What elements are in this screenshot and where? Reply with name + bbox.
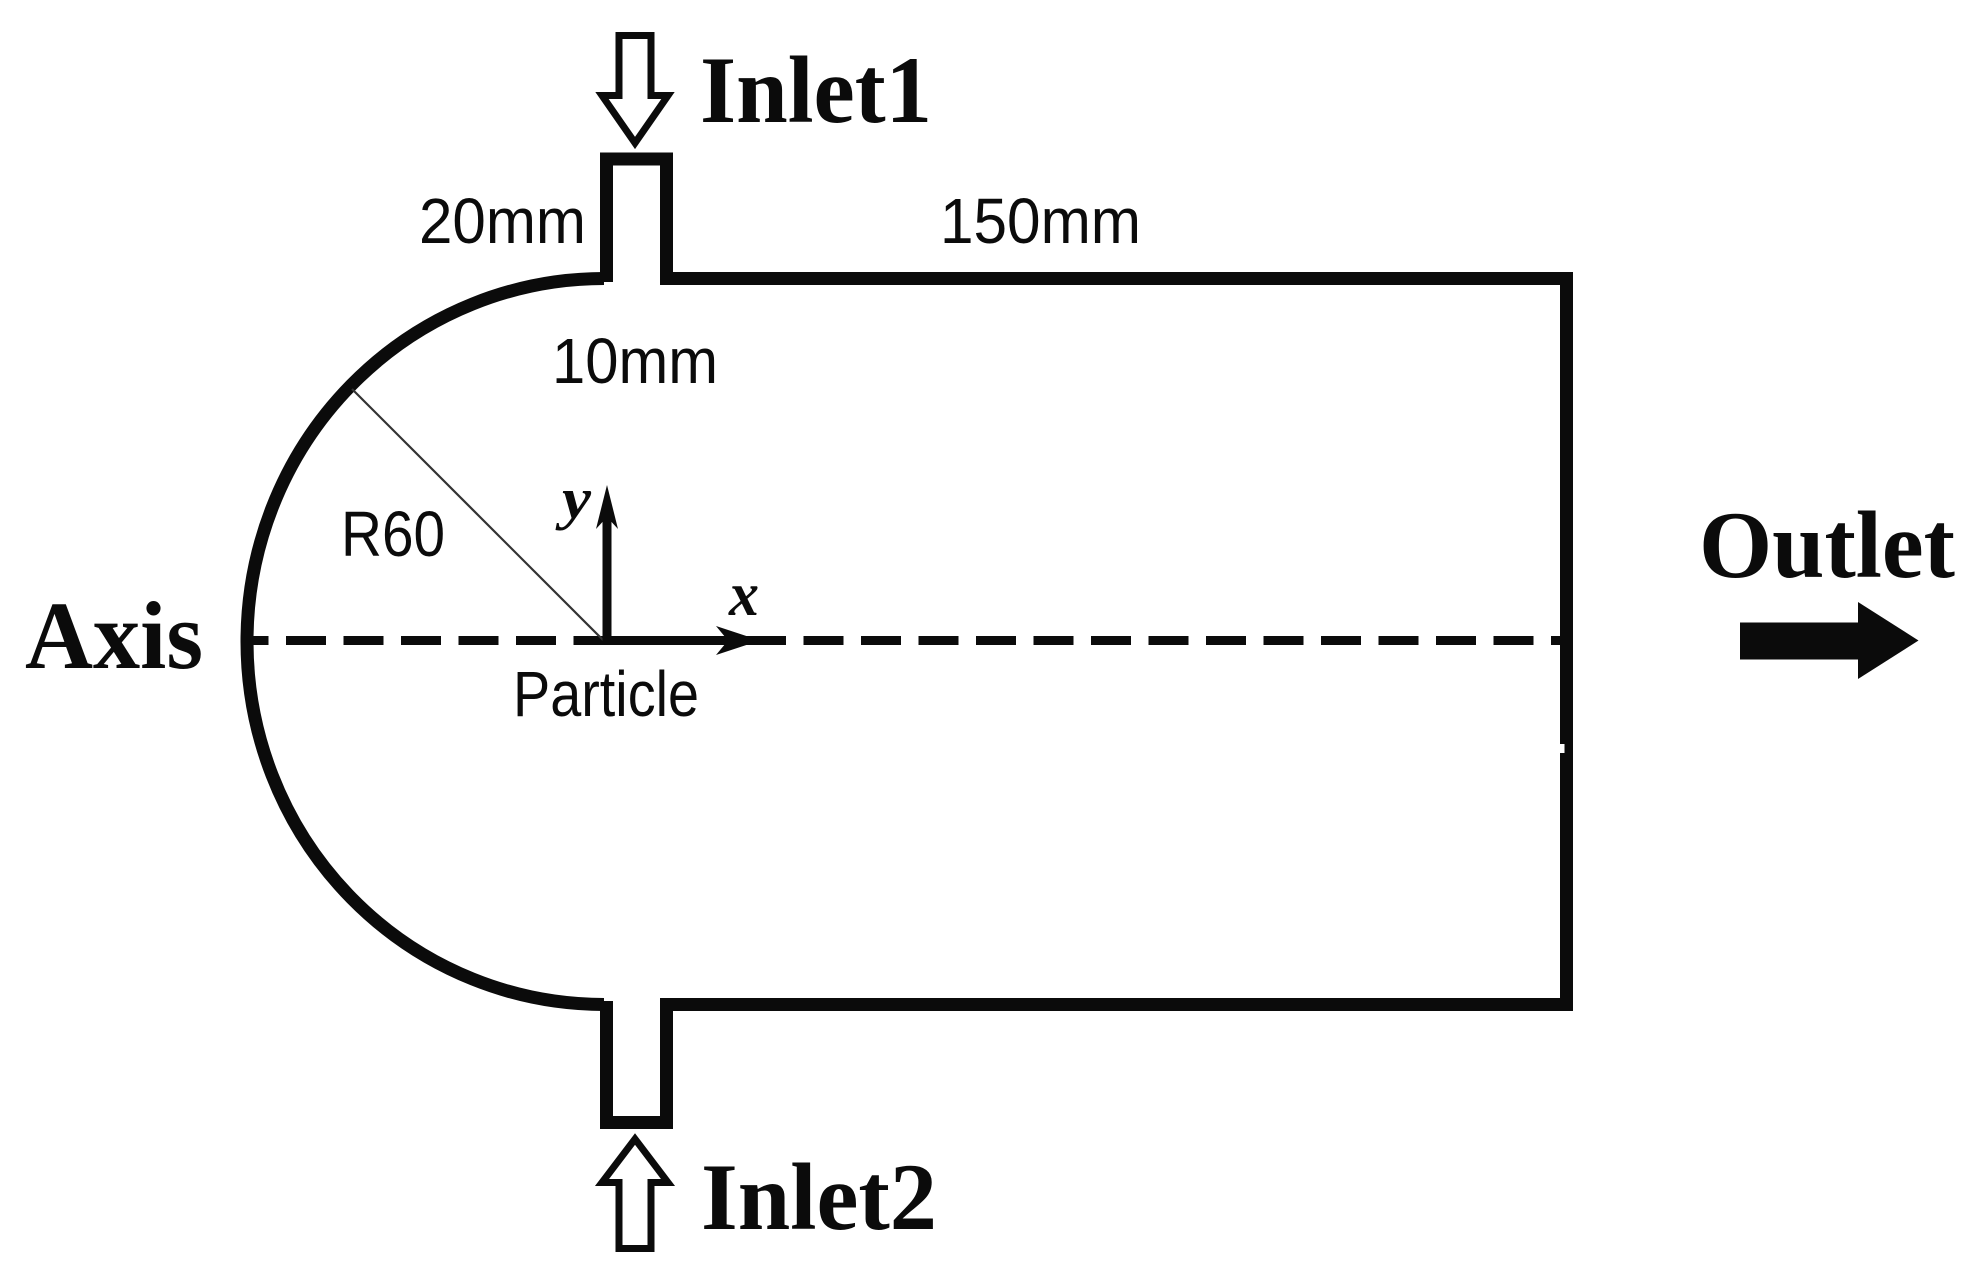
inlet2 stub walls: [607, 1001, 667, 1123]
y axis arrowhead: [596, 485, 618, 529]
svg-text:10mm: 10mm: [552, 325, 718, 397]
svg-text:R60: R60: [341, 498, 445, 570]
inlet2 block arrow (up): [602, 1139, 668, 1249]
y coordinate axis line: [603, 517, 612, 645]
chamber top wall (150mm side): [660, 272, 1567, 285]
chamber bottom wall: [660, 998, 1567, 1011]
svg-text:Particle: Particle: [513, 658, 699, 730]
notch artifact on right wall: [1560, 744, 1565, 753]
inlet2 stub cap line: [600, 1116, 673, 1129]
inlet1 block arrow (down): [602, 36, 668, 144]
svg-text:20mm: 20mm: [419, 185, 586, 257]
inlet1 stub walls: [607, 159, 667, 282]
svg-text:Axis: Axis: [25, 582, 203, 689]
x coordinate axis line: [607, 636, 737, 645]
chamber right wall (outlet side): [1560, 272, 1573, 1011]
x axis arrowhead: [716, 626, 760, 655]
outlet solid arrow body: [1740, 623, 1862, 660]
svg-text:150mm: 150mm: [940, 185, 1141, 257]
axis dashed centerline: [248, 636, 1560, 645]
svg-text:Inlet2: Inlet2: [701, 1144, 937, 1250]
svg-text:Outlet: Outlet: [1699, 492, 1955, 598]
outlet solid arrow head: [1858, 602, 1919, 679]
radius leader line R60: [352, 389, 603, 640]
svg-text:x: x: [728, 561, 759, 629]
svg-text:Inlet1: Inlet1: [700, 37, 932, 143]
inlet1 stub cap line: [600, 153, 673, 166]
chamber left semicircular wall (arc R60): [247, 279, 604, 1005]
